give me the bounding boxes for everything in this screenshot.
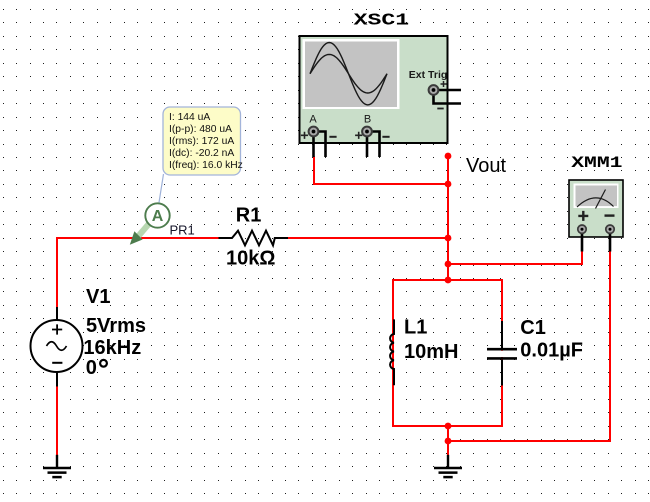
svg-text:B: B [364,114,371,126]
svg-text:A: A [152,208,164,225]
svg-text:I(p-p): 480 uA: I(p-p): 480 uA [169,124,232,135]
svg-text:10mH: 10mH [404,341,458,363]
svg-text:C1: C1 [520,317,546,339]
svg-text:Ext Trig: Ext Trig [409,69,448,81]
svg-text:L1: L1 [404,316,427,338]
svg-text:PR1: PR1 [170,223,195,238]
svg-text:I(dc): -20.2 nA: I(dc): -20.2 nA [169,148,234,159]
svg-text:16kHz: 16kHz [83,337,141,359]
svg-text:Vout: Vout [466,155,506,177]
svg-text:XSC1: XSC1 [354,11,409,30]
svg-text:0: 0 [86,357,97,379]
svg-text:V1: V1 [86,286,110,308]
svg-text:I: 144 uA: I: 144 uA [169,112,210,123]
svg-text:0.01µF: 0.01µF [520,339,583,361]
svg-text:R1: R1 [236,204,262,226]
svg-text:I(freq): 16.0 kHz: I(freq): 16.0 kHz [169,160,243,171]
svg-text:I(rms): 172 uA: I(rms): 172 uA [169,136,234,147]
svg-text:A: A [309,114,317,126]
svg-text:5Vrms: 5Vrms [86,315,146,337]
svg-text:10kΩ: 10kΩ [226,247,275,269]
svg-text:XMM1: XMM1 [571,154,622,172]
